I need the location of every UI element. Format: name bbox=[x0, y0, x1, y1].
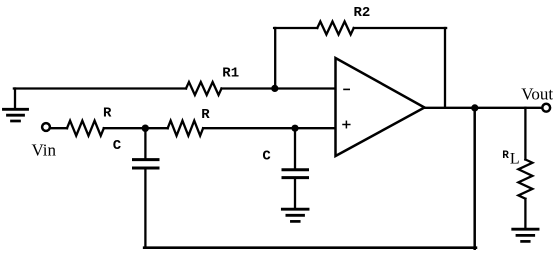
svg-text:R1: R1 bbox=[222, 66, 239, 82]
op-amp U1 bbox=[336, 58, 425, 156]
wire bbox=[425, 107, 543, 109]
terminal Vout bbox=[521, 84, 553, 111]
resistor RL bbox=[502, 108, 532, 229]
wire bbox=[14, 87, 186, 89]
node B bbox=[291, 125, 298, 132]
resistor R bbox=[67, 105, 112, 135]
resistor R2 bbox=[317, 5, 370, 35]
wire bbox=[144, 170, 146, 248]
svg-text:C: C bbox=[262, 148, 271, 164]
wire bbox=[203, 127, 335, 129]
svg-text:C: C bbox=[113, 138, 122, 154]
wire bbox=[444, 28, 446, 108]
svg-text:Vout: Vout bbox=[521, 84, 553, 103]
node bbox=[271, 85, 278, 92]
wire bbox=[274, 27, 317, 29]
wire bbox=[144, 246, 476, 249]
wire bbox=[104, 127, 168, 129]
wire bbox=[354, 27, 446, 29]
ground bbox=[282, 209, 308, 221]
svg-text:R: R bbox=[103, 105, 112, 121]
svg-text:L: L bbox=[510, 150, 520, 167]
svg-text:Vin: Vin bbox=[32, 141, 57, 160]
svg-text:R: R bbox=[201, 107, 210, 123]
ground bbox=[4, 89, 28, 122]
svg-text:R2: R2 bbox=[354, 5, 371, 21]
wire bbox=[274, 28, 276, 89]
terminal Vin bbox=[32, 123, 57, 160]
capacitor C bbox=[113, 128, 158, 168]
resistor R1 bbox=[186, 66, 239, 95]
node bbox=[471, 104, 478, 111]
wire bbox=[294, 179, 296, 208]
ground bbox=[513, 229, 538, 241]
wire bbox=[222, 87, 336, 89]
node A bbox=[142, 125, 149, 132]
wire bbox=[50, 127, 67, 129]
capacitor C bbox=[262, 128, 307, 177]
svg-text:R: R bbox=[502, 150, 509, 162]
resistor R bbox=[168, 107, 211, 136]
wire bbox=[473, 108, 476, 249]
